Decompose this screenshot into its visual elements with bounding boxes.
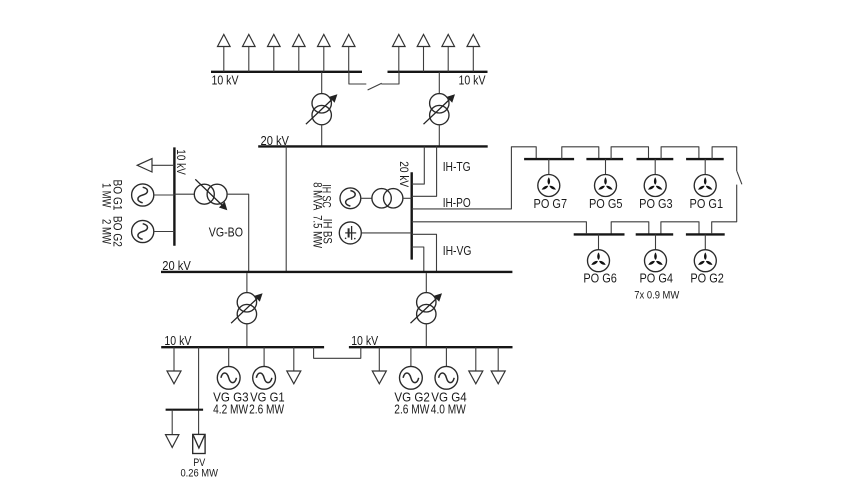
wire: left 10 kV bus to generator VG G3 [228, 347, 230, 366]
svg-text:7x 0.9 MW: 7x 0.9 MW [634, 289, 680, 301]
load arrow down 2 (bottom-left bus) [287, 347, 301, 384]
wind busbar 4 (PO G1) [686, 158, 724, 160]
wire: generator BO G1 to BO bus [154, 194, 175, 196]
wind busbar 5 (PO G6) [574, 233, 625, 235]
disconnector switch S1 wire (right side) [381, 72, 399, 84]
svg-text:VG-BO: VG-BO [209, 225, 243, 240]
svg-text:20 kV: 20 kV [397, 161, 411, 188]
wire: generator IH SC to transformer [361, 197, 372, 199]
generator BO G2 [132, 220, 154, 242]
wire: upper 20 kV bus to lower 20 kV bus [285, 146, 287, 272]
BO 10 kV bus (vertical) [173, 147, 175, 245]
wire: lower 20 kV bus to transformer T4 [425, 273, 427, 292]
wire: transformer IH SC to IH bus [403, 197, 412, 199]
wire: upper 20 kV bus to IH bus (second tie) [412, 146, 437, 196]
svg-text:1 MW: 1 MW [100, 183, 114, 208]
wire bridge: busbar 3 to busbar 4 [661, 147, 699, 159]
right 10 kV bus (bottom) [349, 346, 513, 348]
svg-text:10 kV: 10 kV [351, 333, 378, 348]
wire: left 10 kV bus to PV sub-bus [198, 347, 200, 434]
feeder arrow up 5 (left 10 kV bus) [318, 34, 331, 71]
wire IH-VG tie 1: IH bus to lower 20 kV bus [412, 234, 437, 272]
feeder arrow up 6 (left 10 kV bus) [342, 34, 355, 71]
svg-text:PO G4: PO G4 [639, 271, 673, 286]
svg-text:PO G1: PO G1 [690, 196, 724, 211]
wire: lower 20 kV bus to transformer T3 [246, 273, 248, 292]
svg-text:7.5 MW: 7.5 MW [310, 215, 324, 248]
svg-text:IH-VG: IH-VG [443, 243, 472, 258]
wire: generator BO G2 to BO bus [154, 231, 175, 233]
load arrow down 4 (bottom-right bus) [469, 347, 483, 384]
feeder arrow up 4 (left 10 kV bus) [293, 34, 306, 71]
wire: left 10 kV bus to generator VG G1 [263, 347, 265, 366]
wire: busbar to wind turbine PO G7 [548, 159, 550, 174]
svg-text:0.26 MW: 0.26 MW [180, 468, 218, 480]
svg-text:20 kV: 20 kV [261, 133, 290, 148]
wire: right 10 kV bus to transformer T2 [438, 72, 440, 94]
wind busbar 6 (PO G4) [636, 233, 674, 235]
lower 20 kV bus [161, 271, 512, 273]
svg-text:PO G7: PO G7 [534, 196, 568, 211]
transformer IH SC (two circles) [372, 189, 403, 208]
wire: transformer T4 to right 10 kV bus [425, 324, 427, 346]
wire: left 10 kV bus to transformer T1 [321, 72, 323, 94]
wire: battery IH BS to IH bus [361, 232, 411, 234]
wire: IH bus to wind farm (lower run) [412, 222, 587, 233]
feeder arrow up 1 (left 10 kV bus) [218, 34, 231, 71]
right 10 kV bus (top) [388, 71, 488, 73]
wire: right 10 kV bus to generator VG G2 [410, 347, 412, 366]
wire: busbar to wind turbine PO G3 [654, 159, 656, 174]
generator VG G3 [217, 366, 240, 389]
generator VG G4 [435, 366, 458, 389]
wire bridge: busbar 6 to busbar 7 [661, 222, 699, 235]
wind turbine PO G7 [538, 175, 560, 197]
svg-text:PO G5: PO G5 [589, 196, 623, 211]
wire: busbar to wind turbine PO G2 [704, 234, 706, 249]
battery storage IH BS [339, 222, 361, 244]
wire: BO bus to transformer VG-BO [174, 193, 194, 195]
svg-text:IH-PO: IH-PO [443, 195, 471, 210]
feeder arrow up 7 (right 10 kV bus) [393, 34, 406, 71]
wind turbine PO G4 [645, 250, 667, 272]
svg-text:8 MVA: 8 MVA [310, 182, 324, 211]
disconnector switch S1 blade [368, 83, 382, 90]
wire: transformer VG-BO to lower 20 kV bus [227, 194, 249, 272]
load arrow down 3 (bottom-right bus) [372, 347, 386, 384]
wire link: left 10 kV bus to right 10 kV bus [314, 347, 361, 358]
wire bridge: busbar 5 to busbar 6 [611, 222, 649, 235]
svg-text:PO G2: PO G2 [690, 271, 724, 286]
transformer T2 (OLTC, right) [424, 94, 456, 125]
wind turbine PO G1 [694, 175, 716, 197]
svg-text:10 kV: 10 kV [174, 149, 188, 175]
transformer T4 (OLTC, lower-right) [411, 293, 443, 324]
svg-text:10 kV: 10 kV [164, 333, 191, 348]
svg-text:IH-TG: IH-TG [443, 159, 471, 174]
feeder arrow up 8 (right 10 kV bus) [417, 34, 430, 71]
feeder arrow up 10 (right 10 kV bus) [467, 34, 480, 71]
wire: transformer T2 to 20 kV bus [438, 125, 440, 147]
wire: transformer T1 to 20 kV bus [321, 125, 323, 147]
wire: busbar 4 to disconnector S2 [712, 147, 737, 172]
generator BO G1 [132, 184, 154, 206]
wire bridge: busbar 1 to busbar 2 [562, 147, 599, 159]
wind busbar 2 (PO G5) [586, 158, 623, 160]
wind busbar 1 (PO G7) [524, 158, 574, 160]
generator VG G1 [253, 366, 276, 389]
load arrow down 5 (bottom-right bus) [491, 347, 505, 384]
generator VG G2 [400, 366, 423, 389]
IH 20 kV bus (vertical) [411, 172, 413, 259]
wire: transformer T3 to left 10 kV bus [246, 324, 248, 346]
load arrow down 1 (bottom-left bus) [167, 347, 181, 384]
svg-text:PO G6: PO G6 [583, 271, 617, 286]
feeder arrow up 2 (left 10 kV bus) [243, 34, 256, 71]
wire: right 10 kV bus to generator VG G4 [445, 347, 447, 366]
transformer VG-BO (two circles, tap arrow) [194, 179, 227, 210]
PV converter symbol [193, 434, 205, 453]
wire IH-TG: upper 20 kV bus to IH bus [412, 146, 425, 184]
transformer T1 (OLTC, left) [306, 94, 338, 125]
svg-text:4.2 MW: 4.2 MW [213, 401, 249, 416]
wind turbine PO G3 [644, 175, 666, 197]
svg-text:PO G3: PO G3 [639, 196, 673, 211]
wind turbine PO G6 [588, 250, 610, 272]
svg-text:20 kV: 20 kV [162, 258, 191, 273]
wire bridge: busbar 2 to busbar 3 [611, 147, 648, 159]
svg-text:10 kV: 10 kV [212, 72, 239, 87]
transformer T3 (OLTC, lower-left) [231, 293, 263, 324]
wire: disconnector S2 to lower wind run [712, 185, 737, 234]
wire IH-PO: IH bus to wind farm (upper run) [412, 147, 537, 209]
generator IH SC [340, 188, 361, 209]
wire: busbar to wind turbine PO G4 [655, 234, 657, 249]
wire: busbar to wind turbine PO G6 [598, 234, 600, 249]
disconnector switch S2 blade [737, 171, 742, 184]
feeder arrow up 3 (left 10 kV bus) [268, 34, 281, 71]
left 10 kV bus (top) [211, 71, 362, 73]
wind turbine PO G2 [694, 250, 716, 272]
left 10 kV bus (bottom) [161, 346, 324, 348]
wind busbar 7 (PO G2) [686, 233, 725, 235]
wire: busbar to wind turbine PO G5 [605, 159, 607, 174]
wind turbine PO G5 [595, 175, 617, 197]
svg-text:2 MW: 2 MW [100, 219, 114, 244]
wire: busbar to wind turbine PO G1 [704, 159, 706, 174]
upper 20 kV bus [258, 145, 488, 147]
load arrow down (PV sub-bus) [166, 410, 179, 448]
wire IH-VG tie 2: IH bus to lower 20 kV bus [412, 247, 424, 272]
disconnector switch S1 wire (left side) [349, 72, 366, 84]
load arrow pointing left (BO bus) [137, 159, 174, 172]
svg-text:4.0 MW: 4.0 MW [431, 401, 467, 416]
svg-text:2.6 MW: 2.6 MW [249, 401, 285, 416]
svg-text:2.6 MW: 2.6 MW [394, 401, 430, 416]
wind busbar 3 (PO G3) [637, 158, 674, 160]
feeder arrow up 9 (right 10 kV bus) [442, 34, 455, 71]
svg-text:10 kV: 10 kV [459, 72, 486, 87]
PV sub-bus [166, 409, 204, 411]
